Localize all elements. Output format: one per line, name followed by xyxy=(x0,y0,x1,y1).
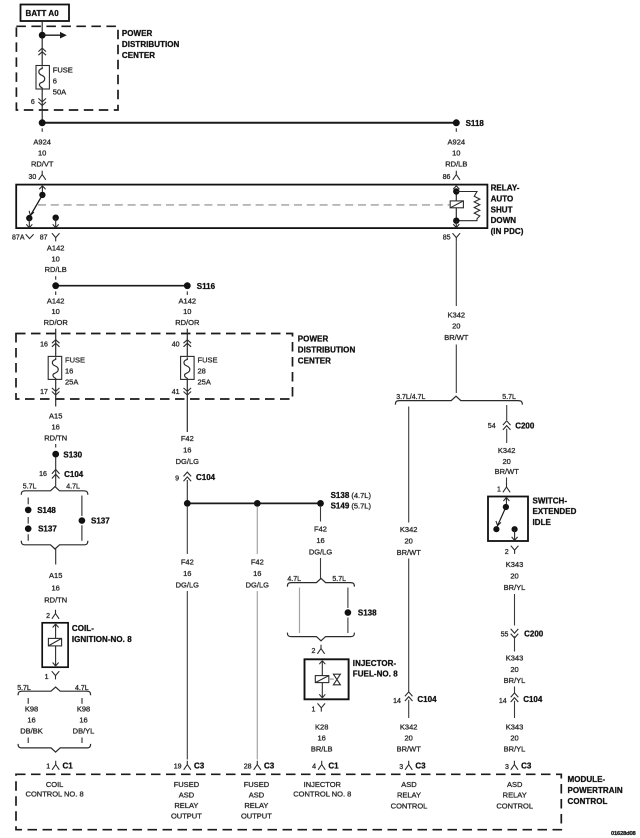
svg-text:5.7L: 5.7L xyxy=(23,484,37,491)
svg-text:RD/LB: RD/LB xyxy=(45,265,67,274)
relay coil bottom node xyxy=(453,218,459,224)
wire label K342 20 BR/WT (bottom) xyxy=(397,722,422,753)
svg-text:20: 20 xyxy=(503,457,511,466)
svg-text:6: 6 xyxy=(31,99,35,106)
svg-text:1: 1 xyxy=(45,674,49,681)
svg-text:41: 41 xyxy=(172,389,180,396)
wire label A15 16 RD/TN (2) xyxy=(44,571,67,604)
svg-text:3.7L/4.7L: 3.7L/4.7L xyxy=(396,394,425,401)
wire C200-55 down xyxy=(514,636,516,651)
svg-text:4: 4 xyxy=(312,764,316,771)
svg-text:F42: F42 xyxy=(181,558,194,567)
svg-text:K343: K343 xyxy=(506,722,524,731)
wire col2 to C3 (gray) xyxy=(256,591,258,760)
fuse 28 25A xyxy=(181,356,195,379)
module pin label asd relay control 2 xyxy=(496,780,533,811)
svg-text:CONTROL NO. 8: CONTROL NO. 8 xyxy=(293,789,351,798)
svg-text:28: 28 xyxy=(198,367,206,376)
coil label xyxy=(72,624,132,644)
svg-text:FUEL-NO. 8: FUEL-NO. 8 xyxy=(353,670,398,679)
svg-text:SHUT: SHUT xyxy=(491,205,513,214)
svg-text:S116: S116 xyxy=(197,282,216,291)
chevron out (fuse 16 bottom) xyxy=(52,388,60,395)
svg-text:FUSED: FUSED xyxy=(244,780,270,789)
wire fuse 6 to main bus xyxy=(41,89,43,123)
pin 1 connector (coil) xyxy=(45,671,60,681)
svg-text:3: 3 xyxy=(399,764,403,771)
power distribution center label 1 xyxy=(122,29,180,60)
svg-text:RELAY: RELAY xyxy=(397,791,421,800)
svg-text:5.7L: 5.7L xyxy=(17,685,31,692)
svg-text:DISTRIBUTION: DISTRIBUTION xyxy=(298,346,356,355)
svg-text:S137: S137 xyxy=(38,525,57,534)
pin 28 connector C3 xyxy=(244,761,275,771)
wire tick below junction xyxy=(55,291,57,295)
svg-text:K98: K98 xyxy=(77,705,90,714)
svg-text:16: 16 xyxy=(316,536,324,545)
svg-text:C1: C1 xyxy=(328,761,339,770)
svg-text:14: 14 xyxy=(393,698,401,705)
svg-text:POWER: POWER xyxy=(122,29,153,38)
svg-text:BR/WT: BR/WT xyxy=(397,744,422,753)
svg-text:K98: K98 xyxy=(25,705,38,714)
chevron in (fuse 16 top) xyxy=(52,340,60,347)
pin 3 connector C3 (right) xyxy=(505,761,532,771)
svg-text:BR/WT: BR/WT xyxy=(495,467,520,476)
svg-text:K343: K343 xyxy=(506,654,524,663)
engine merge brace (coil output) xyxy=(18,744,91,752)
svg-text:87A: 87A xyxy=(12,235,25,242)
coil primary symbol xyxy=(48,638,61,646)
svg-text:K342: K342 xyxy=(400,722,418,731)
engine split brace (injector) xyxy=(287,578,354,586)
svg-text:19: 19 xyxy=(174,764,182,771)
wire tick above junction xyxy=(55,276,57,280)
svg-text:S138 (4.7L): S138 (4.7L) xyxy=(331,491,372,500)
relay linkage dashed line (gray) xyxy=(38,204,450,206)
svg-text:C104: C104 xyxy=(64,470,84,479)
wire 5.7 branch down xyxy=(506,405,508,420)
wire C104 to injector bus xyxy=(186,480,188,503)
svg-text:BR/YL: BR/YL xyxy=(504,583,526,592)
svg-text:ASD: ASD xyxy=(401,780,417,789)
engine split brace (ASD output) xyxy=(395,396,522,404)
wire to engine brace xyxy=(455,345,457,394)
svg-text:RELAY: RELAY xyxy=(174,801,198,810)
wire bus3 down xyxy=(320,507,322,522)
svg-text:RELAY: RELAY xyxy=(503,791,527,800)
svg-text:A924: A924 xyxy=(448,138,466,147)
svg-text:S118: S118 xyxy=(466,119,485,128)
coil internal wire and arrows xyxy=(53,624,59,666)
module pin label injector control no 8 xyxy=(293,780,351,799)
svg-text:10: 10 xyxy=(52,307,60,316)
svg-text:F42: F42 xyxy=(181,434,194,443)
svg-text:CONTROL: CONTROL xyxy=(496,801,533,810)
arrow tap to other circuits xyxy=(42,32,67,39)
svg-text:RD/TN: RD/TN xyxy=(44,433,67,442)
svg-text:16: 16 xyxy=(79,716,87,725)
connector C104 pin 14 (left) xyxy=(393,692,437,705)
relay contact 87 xyxy=(53,215,59,228)
splice S137 (5.7L) xyxy=(25,525,57,534)
svg-text:16: 16 xyxy=(183,446,191,455)
svg-text:F42: F42 xyxy=(251,558,264,567)
wire label F42 16 DG/LG (col 1) xyxy=(176,558,200,590)
svg-text:5.7L: 5.7L xyxy=(502,394,516,401)
module powertrain control box (dashed) xyxy=(16,774,561,829)
wire col3 to brace xyxy=(320,558,322,579)
wire C104 down (right) xyxy=(514,701,516,718)
svg-text:6: 6 xyxy=(53,77,57,86)
svg-text:C200: C200 xyxy=(515,421,535,430)
wire label A15 16 RD/TN xyxy=(44,411,67,442)
injector nozzle link (gray) xyxy=(329,678,334,680)
switch arm xyxy=(496,507,506,526)
node junction in PDC 1 xyxy=(39,32,46,39)
svg-text:A142: A142 xyxy=(47,296,65,305)
switch output contact xyxy=(511,526,517,540)
svg-text:2: 2 xyxy=(46,613,50,620)
svg-text:50A: 50A xyxy=(53,88,66,97)
svg-text:S130: S130 xyxy=(63,450,82,459)
node at bus left xyxy=(39,119,46,126)
svg-text:4.7L: 4.7L xyxy=(287,576,301,583)
svg-text:20: 20 xyxy=(510,572,518,581)
svg-text:DG/LG: DG/LG xyxy=(246,581,270,590)
svg-text:F42: F42 xyxy=(314,525,327,534)
power distribution center box 1 (dashed) xyxy=(16,26,118,110)
pin 1 connector (switch) xyxy=(497,483,510,493)
svg-text:A15: A15 xyxy=(49,411,62,420)
wire label K343 20 BR/YL (switch out) xyxy=(504,560,526,592)
relay pin 30 entry arrow xyxy=(39,186,45,196)
wire tick 5.7L branch 2 xyxy=(27,738,29,744)
engine merge brace (injector) xyxy=(287,633,354,641)
svg-text:DOWN: DOWN xyxy=(491,216,517,225)
svg-text:CONTROL: CONTROL xyxy=(391,801,428,810)
svg-text:K342: K342 xyxy=(498,446,516,455)
injector coil symbol xyxy=(315,676,329,683)
connector C200 pin 55 xyxy=(501,629,544,639)
injector label xyxy=(353,659,398,679)
svg-text:S149 (5.7L): S149 (5.7L) xyxy=(331,502,372,511)
splice S116 xyxy=(184,282,216,291)
svg-text:ASD: ASD xyxy=(179,790,195,799)
svg-text:20: 20 xyxy=(510,665,518,674)
wire to switch pin 1 xyxy=(506,478,508,484)
svg-text:K342: K342 xyxy=(448,310,466,319)
svg-text:85: 85 xyxy=(443,235,451,242)
wire 4.7L branch (gray) xyxy=(299,588,301,634)
svg-text:IDLE: IDLE xyxy=(533,518,552,527)
svg-text:DG/LG: DG/LG xyxy=(176,457,200,466)
svg-text:CONTROL: CONTROL xyxy=(568,797,608,806)
svg-text:14: 14 xyxy=(499,698,507,705)
svg-text:BR/WT: BR/WT xyxy=(397,548,422,557)
wire 5.7L branch (dashes) xyxy=(27,498,29,541)
svg-text:RD/OR: RD/OR xyxy=(44,318,69,327)
svg-text:20: 20 xyxy=(405,733,413,742)
svg-text:16: 16 xyxy=(52,584,60,593)
pin 2 connector (coil) xyxy=(46,610,59,620)
node injector bus 1 xyxy=(184,500,191,507)
svg-text:A142: A142 xyxy=(47,244,65,253)
wire bus2 down (gray) xyxy=(256,507,258,554)
svg-text:DG/LG: DG/LG xyxy=(176,581,200,590)
svg-text:CENTER: CENTER xyxy=(298,356,331,365)
svg-text:40: 40 xyxy=(172,341,180,348)
wire label K98 16 DB/YL xyxy=(73,705,95,736)
wire tick above S130 xyxy=(55,444,57,448)
svg-text:ASD: ASD xyxy=(507,780,523,789)
wire label A142 10 RD/OR (right) xyxy=(175,296,200,327)
svg-text:CONTROL NO. 8: CONTROL NO. 8 xyxy=(26,789,84,798)
connector C200 pin 54 xyxy=(488,421,535,431)
relay common node xyxy=(39,192,45,198)
wire label F42 16 DG/LG (col 3) xyxy=(309,525,333,557)
svg-text:16: 16 xyxy=(27,716,35,725)
fuse 16 25A xyxy=(48,356,62,379)
wire label K343 20 BR/YL (bottom) xyxy=(504,722,526,753)
svg-text:INJECTOR-: INJECTOR- xyxy=(353,659,397,668)
chevron out (fuse 28 bottom) xyxy=(184,388,192,395)
switch open contact node xyxy=(493,526,499,532)
switch label xyxy=(533,496,577,527)
svg-text:FUSE: FUSE xyxy=(65,356,85,365)
wire C104 down (left) xyxy=(408,700,410,718)
chevron out (bottom of PDC 1) xyxy=(38,98,46,105)
wire label K342 20 BR/WT (5.7L) xyxy=(495,446,520,476)
battery feed BATT A0 xyxy=(21,5,70,22)
svg-text:COIL: COIL xyxy=(46,780,64,789)
relay coil top node xyxy=(453,188,459,194)
wire label K342 20 BR/WT (branch) xyxy=(397,525,422,557)
fuse 6 value label xyxy=(53,66,73,97)
chevron out (top of fuse 6 feed) xyxy=(38,48,46,55)
wire tick below S116 xyxy=(186,291,188,295)
svg-text:RD/LB: RD/LB xyxy=(445,160,467,169)
module pin label asd relay control 1 xyxy=(391,780,428,811)
svg-text:C3: C3 xyxy=(194,761,205,770)
wire label F42 16 DG/LG (col 2) xyxy=(246,558,270,590)
svg-text:IGNITION-NO. 8: IGNITION-NO. 8 xyxy=(72,635,132,644)
relay switch arm xyxy=(29,195,42,217)
pin 1 connector C1 xyxy=(46,761,73,771)
svg-text:A15: A15 xyxy=(49,571,62,580)
svg-text:DB/YL: DB/YL xyxy=(73,727,95,736)
wire 3.7/4.7 branch down xyxy=(408,407,410,523)
pin 85 connector xyxy=(443,233,460,241)
svg-text:RD/TN: RD/TN xyxy=(44,595,67,604)
svg-text:10: 10 xyxy=(452,149,460,158)
svg-text:01628d08: 01628d08 xyxy=(611,831,636,837)
wire label K98 16 DB/BK xyxy=(20,705,43,736)
wire fuse 28 down xyxy=(186,379,188,432)
svg-text:DISTRIBUTION: DISTRIBUTION xyxy=(122,40,180,49)
splice S148 xyxy=(25,506,57,515)
main bus wire to S118 xyxy=(42,122,456,124)
fuse 16 value label xyxy=(65,356,85,387)
svg-text:86: 86 xyxy=(443,174,451,181)
svg-text:ASD: ASD xyxy=(249,790,265,799)
wire switch to C200 xyxy=(514,594,516,626)
svg-text:C104: C104 xyxy=(523,695,543,704)
pin 86 connector xyxy=(443,171,460,181)
connector C104 pin 14 (right) xyxy=(499,693,543,705)
svg-text:1: 1 xyxy=(311,706,315,713)
svg-text:C3: C3 xyxy=(521,761,532,770)
svg-text:BR/WT: BR/WT xyxy=(444,333,469,342)
wire tick 5.7L branch xyxy=(27,698,29,704)
svg-text:MODULE-: MODULE- xyxy=(568,775,606,784)
power distribution center box 2 (dashed) xyxy=(16,334,293,400)
switch extended idle box xyxy=(488,497,528,542)
svg-text:DB/BK: DB/BK xyxy=(20,727,43,736)
svg-text:(IN PDC): (IN PDC) xyxy=(491,227,524,236)
svg-text:INJECTOR: INJECTOR xyxy=(304,780,342,789)
svg-text:55: 55 xyxy=(501,632,509,639)
injector nozzle symbol xyxy=(333,674,340,685)
wire relay 85 down xyxy=(455,241,457,306)
svg-text:K343: K343 xyxy=(506,560,524,569)
pin 1 connector (injector) xyxy=(311,703,325,713)
relay coil xyxy=(450,192,463,221)
wire merge down xyxy=(55,549,57,565)
engine merge brace xyxy=(21,541,88,549)
injector fuel no 8 box xyxy=(305,659,349,699)
wire C200 down xyxy=(506,429,508,443)
svg-text:1: 1 xyxy=(46,764,50,771)
svg-text:RD/OR: RD/OR xyxy=(175,318,200,327)
svg-text:16: 16 xyxy=(39,471,47,478)
wire junction to S116 xyxy=(56,285,188,287)
svg-text:C104: C104 xyxy=(417,695,437,704)
wire fuse 16 down xyxy=(55,379,57,406)
wire label K343 20 BR/YL (mid) xyxy=(504,654,526,685)
wire into fuse 16 xyxy=(55,329,57,357)
injector feed bus wire xyxy=(187,502,320,504)
module pin label coil control no 8 xyxy=(26,780,84,799)
connector C104 pin 9 xyxy=(175,472,216,483)
svg-text:CENTER: CENTER xyxy=(122,51,155,60)
svg-text:OUTPUT: OUTPUT xyxy=(241,812,272,821)
svg-text:C1: C1 xyxy=(63,761,74,770)
wire tick below bus left xyxy=(41,128,43,132)
chevron in (fuse 28 top) xyxy=(184,340,192,347)
svg-text:DG/LG: DG/LG xyxy=(309,548,333,557)
svg-text:K342: K342 xyxy=(400,525,418,534)
svg-text:3: 3 xyxy=(505,764,509,771)
switch pin 1 entry arrow xyxy=(503,498,509,507)
svg-text:54: 54 xyxy=(488,423,496,430)
svg-text:EXTENDED: EXTENDED xyxy=(533,507,577,516)
pin 19 connector C3 xyxy=(174,761,205,771)
svg-text:C3: C3 xyxy=(415,761,426,770)
svg-text:A142: A142 xyxy=(179,296,197,305)
svg-text:4.7L: 4.7L xyxy=(66,484,80,491)
svg-text:25A: 25A xyxy=(65,378,78,387)
node injector bus 2 xyxy=(254,500,261,507)
engine split brace (5.7L / 4.7L) xyxy=(21,487,88,495)
svg-text:COIL-: COIL- xyxy=(72,624,94,633)
pin 87 connector xyxy=(40,233,60,241)
wire label A142 10 RD/OR (left) xyxy=(44,296,69,327)
wire tick below S118 xyxy=(455,128,457,132)
wire bus1 down xyxy=(186,507,188,554)
svg-text:K28: K28 xyxy=(315,722,328,731)
switch common node xyxy=(503,504,509,510)
relay resistor (parallel) xyxy=(456,192,480,221)
wire label F42 16 DG/LG (fuse 28 out) xyxy=(176,434,200,466)
wire 5.7L branch xyxy=(347,588,349,634)
relay pin 86 entry arrow xyxy=(453,186,459,189)
svg-text:1: 1 xyxy=(497,487,501,494)
wire label A142 10 RD/LB xyxy=(45,244,67,275)
relay contact 87A xyxy=(26,215,32,228)
svg-text:RELAY-: RELAY- xyxy=(491,184,520,193)
wire into fuse 28 xyxy=(186,329,188,357)
splice S118 xyxy=(453,119,485,128)
svg-text:16: 16 xyxy=(40,341,48,348)
svg-text:16: 16 xyxy=(183,569,191,578)
svg-text:POWER: POWER xyxy=(298,335,329,344)
svg-text:20: 20 xyxy=(510,733,518,742)
svg-text:17: 17 xyxy=(40,389,48,396)
svg-text:25A: 25A xyxy=(198,378,211,387)
coil ignition no 8 box xyxy=(42,623,68,667)
wire col1 to C3 xyxy=(186,591,188,760)
svg-text:AUTO: AUTO xyxy=(491,195,514,204)
node junction 87 output xyxy=(52,282,59,289)
wire branch to C104 xyxy=(408,559,410,693)
svg-text:BR/YL: BR/YL xyxy=(504,744,526,753)
splice S130 xyxy=(52,450,82,459)
svg-text:16: 16 xyxy=(52,422,60,431)
module pin label fused asd relay output 2 xyxy=(241,780,272,821)
svg-text:BATT A0: BATT A0 xyxy=(26,9,60,18)
wire 4.7L branch xyxy=(81,496,83,541)
svg-text:S138: S138 xyxy=(358,609,377,618)
svg-text:FUSE: FUSE xyxy=(53,66,73,75)
svg-text:16: 16 xyxy=(318,733,326,742)
svg-text:C200: C200 xyxy=(524,629,544,638)
fuse 6 50A xyxy=(36,66,49,90)
wire label K342 20 BR/WT (relay out) xyxy=(444,310,469,342)
svg-text:RELAY: RELAY xyxy=(244,801,268,810)
module pin label fused asd relay output 1 xyxy=(171,780,202,821)
pin 3 connector C3 (left) xyxy=(399,761,426,771)
pin 30 connector xyxy=(29,171,46,181)
relay pin 85 exit arrow xyxy=(453,221,459,228)
svg-text:BR/LB: BR/LB xyxy=(311,744,333,753)
svg-text:A924: A924 xyxy=(33,138,51,147)
svg-text:4.7L: 4.7L xyxy=(75,685,89,692)
wire label K28 16 BR/LB xyxy=(311,722,333,753)
svg-text:2: 2 xyxy=(311,648,315,655)
svg-text:FUSE: FUSE xyxy=(198,356,218,365)
svg-text:20: 20 xyxy=(405,537,413,546)
wire label A924 10 RD/VT xyxy=(31,138,54,169)
wire label A924 10 RD/LB xyxy=(445,138,467,169)
svg-text:S137: S137 xyxy=(91,517,110,526)
pin 4 connector C1 xyxy=(312,761,339,771)
svg-text:S148: S148 xyxy=(37,506,56,515)
wire to C104 (right) xyxy=(514,687,516,694)
svg-text:10: 10 xyxy=(52,254,60,263)
wire tick 4.7L branch 2 xyxy=(81,738,83,744)
svg-text:30: 30 xyxy=(29,174,37,181)
